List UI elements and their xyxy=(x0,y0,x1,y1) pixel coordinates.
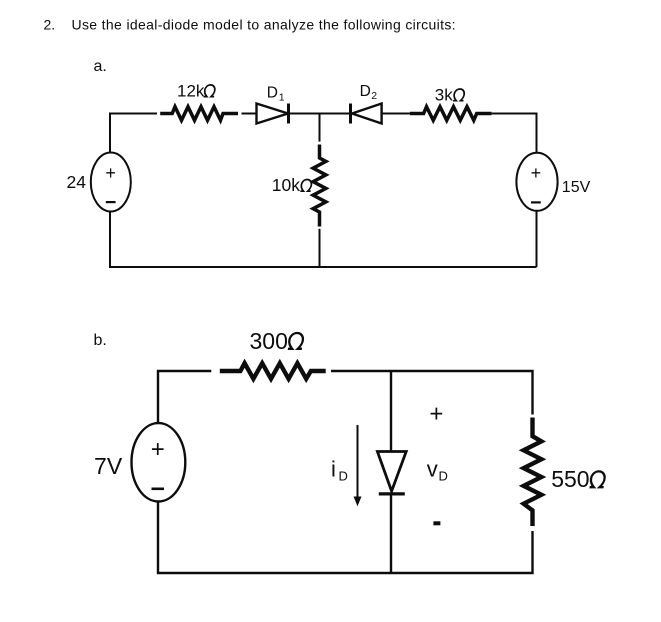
svg-text:10k: 10k xyxy=(272,175,300,195)
svg-text:D: D xyxy=(360,83,371,100)
svg-text:3k: 3k xyxy=(435,86,453,105)
svg-text:7V: 7V xyxy=(94,453,123,479)
svg-text:D: D xyxy=(439,469,448,484)
svg-text:a.: a. xyxy=(94,58,107,75)
svg-text:1: 1 xyxy=(279,91,285,103)
svg-text:550: 550 xyxy=(551,466,589,492)
svg-text:+: + xyxy=(151,436,165,463)
svg-text:24: 24 xyxy=(67,172,87,192)
svg-text:15V: 15V xyxy=(562,179,591,196)
svg-text:i: i xyxy=(331,456,336,481)
svg-text:12k: 12k xyxy=(177,82,205,101)
svg-text:300: 300 xyxy=(250,328,288,354)
svg-text:v: v xyxy=(427,456,438,481)
svg-text:+: + xyxy=(531,163,542,183)
svg-text:D: D xyxy=(267,84,278,101)
svg-text:+: + xyxy=(105,163,116,183)
svg-text:2.: 2. xyxy=(44,17,56,33)
svg-text:2: 2 xyxy=(371,90,377,102)
svg-text:Use the ideal-diode model to a: Use the ideal-diode model to analyze the… xyxy=(72,17,456,33)
svg-text:D: D xyxy=(339,469,348,484)
svg-text:b.: b. xyxy=(94,332,107,349)
svg-text:+: + xyxy=(429,400,443,427)
